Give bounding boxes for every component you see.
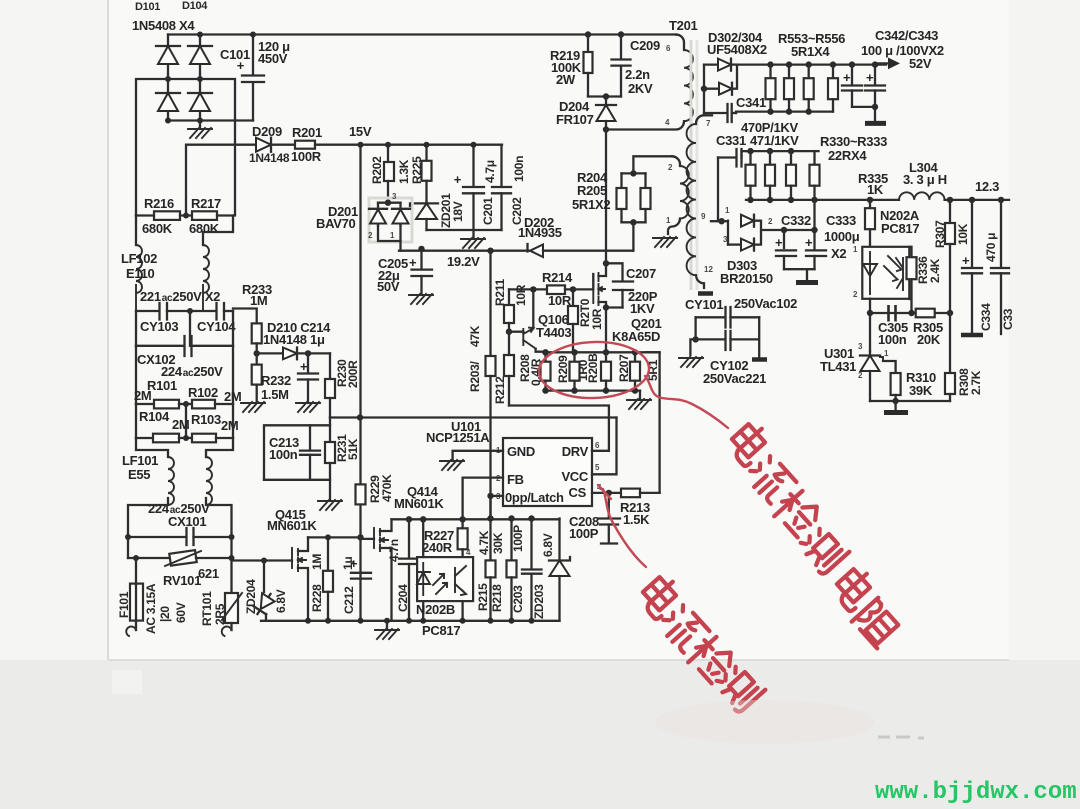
svg-text:www.bjjdwx.com: www.bjjdwx.com xyxy=(875,779,1077,806)
svg-text:K8A65D: K8A65D xyxy=(612,329,660,344)
svg-text:D104: D104 xyxy=(182,0,208,12)
resistor R553 xyxy=(766,65,776,112)
wire VCC loop xyxy=(592,418,617,475)
red text char4 ce xyxy=(797,523,850,576)
wire TL431 ref to R310 xyxy=(883,361,896,373)
svg-text:6: 6 xyxy=(595,441,600,450)
svg-text:GND: GND xyxy=(507,444,535,459)
resistor R211 xyxy=(504,289,514,331)
svg-text:3: 3 xyxy=(723,235,728,244)
svg-text:10R: 10R xyxy=(514,284,528,306)
node C333 top xyxy=(811,227,817,233)
svg-text:LF101: LF101 xyxy=(122,453,158,468)
svg-text:10K: 10K xyxy=(956,223,970,245)
svg-text:X2: X2 xyxy=(831,246,846,261)
svg-text:1: 1 xyxy=(390,231,395,240)
svg-text:1M: 1M xyxy=(250,293,267,308)
node snubber rail R555 xyxy=(806,108,812,114)
resistor R310 xyxy=(891,373,901,401)
red text2 char3 jian xyxy=(684,633,737,686)
node snubber rail R554 xyxy=(786,108,792,114)
svg-text:1KV: 1KV xyxy=(630,301,655,316)
svg-text:18V: 18V xyxy=(451,201,465,222)
svg-text:2R5: 2R5 xyxy=(213,603,227,625)
node C101 top xyxy=(250,32,256,38)
svg-text:4: 4 xyxy=(466,548,471,557)
wire D303 out rail xyxy=(784,230,815,248)
red text char6 zu xyxy=(852,598,903,649)
resistor R219 xyxy=(584,35,593,97)
diode D101 top-left xyxy=(156,46,180,64)
svg-text:19.2V: 19.2V xyxy=(447,254,480,269)
label Q414 MN601K xyxy=(394,484,444,511)
node R211 bottom xyxy=(506,329,512,335)
resistor R228 xyxy=(323,537,333,620)
svg-text:2M: 2M xyxy=(172,417,189,432)
svg-text:2: 2 xyxy=(768,217,773,226)
wire D201 out to 19.2V rail xyxy=(399,241,401,251)
capacitor C212 xyxy=(350,556,371,579)
wire Q414 gate from node xyxy=(361,538,375,540)
zener ZD204 xyxy=(251,561,277,621)
svg-text:+: + xyxy=(409,255,417,270)
ground aux winding xyxy=(653,237,677,247)
svg-text:1K: 1K xyxy=(867,182,884,197)
svg-text:C209: C209 xyxy=(630,38,660,53)
AC input hook left xyxy=(126,627,136,636)
snubber: node top rail R219 xyxy=(585,31,591,37)
node bridge bottom left xyxy=(165,118,171,124)
wire FB pin to R227 node xyxy=(463,478,503,520)
wire C342/C343 bottoms xyxy=(852,106,875,108)
capacitor C203 xyxy=(522,519,542,621)
ground CY101 (slash style) xyxy=(679,357,703,367)
red squiggle to label text1 xyxy=(645,376,728,428)
svg-text:R330~R333: R330~R333 xyxy=(820,134,887,149)
svg-text:470 μ: 470 μ xyxy=(984,233,998,262)
svg-text:R103: R103 xyxy=(191,412,221,427)
node 19.2V at R203 vertical xyxy=(487,248,493,254)
node out rail right cap xyxy=(998,197,1004,203)
wire vertical x360 from 15V down xyxy=(359,145,361,621)
node rail at x387 ground stub xyxy=(384,618,390,624)
transformer T201 aux winding xyxy=(668,156,689,234)
node rail R554 xyxy=(786,61,792,67)
svg-text:1μ: 1μ xyxy=(341,557,355,570)
node D204 bottom / T201 pin4 xyxy=(603,126,609,132)
node C204 top xyxy=(406,516,412,522)
wire TL431 bottom rail xyxy=(870,400,950,402)
wire down to RV101 rail xyxy=(128,537,232,558)
svg-text:R207: R207 xyxy=(617,354,631,382)
resistor R213 xyxy=(621,489,660,498)
winding tap node xyxy=(718,218,724,224)
node rail at x360 xyxy=(358,618,364,624)
node R204 pair bottom xyxy=(630,219,636,225)
svg-text:R214: R214 xyxy=(542,270,573,285)
label R233 1M xyxy=(242,282,272,308)
svg-text:+: + xyxy=(454,172,462,187)
svg-text:2.2n: 2.2n xyxy=(625,67,650,82)
wire bridge right column xyxy=(199,35,201,120)
node R215 top xyxy=(487,515,493,521)
node row R336 xyxy=(908,310,914,316)
wire D303 cathodes junction xyxy=(754,221,784,245)
resistor R217 xyxy=(192,211,233,220)
label R219 100K 2W xyxy=(550,48,582,87)
op-amp U101 NCP1251A box xyxy=(503,438,592,506)
node gate rail at R210 xyxy=(570,286,576,292)
wire 19.2V rail xyxy=(399,250,528,252)
svg-text:39K: 39K xyxy=(909,383,933,398)
wire AC2 jog to LF101 xyxy=(206,438,233,457)
wire mid column R101-R104 xyxy=(185,404,187,438)
label R305 20K xyxy=(913,320,943,347)
svg-text:22RX4: 22RX4 xyxy=(828,148,867,163)
svg-text:100P: 100P xyxy=(569,526,599,541)
wire 52V rail xyxy=(737,63,886,65)
svg-text:200R: 200R xyxy=(346,360,360,388)
svg-text:R203/: R203/ xyxy=(468,361,482,392)
faint gray dashes bottom xyxy=(878,737,924,738)
wire AC1 down to LF102 xyxy=(135,216,137,246)
resistor R208 xyxy=(541,352,551,390)
wire Q415 gate xyxy=(233,559,292,561)
svg-text:PC817: PC817 xyxy=(881,221,919,236)
svg-text:1R0: 1R0 xyxy=(576,359,590,381)
wire Opp pin to R203 vertical xyxy=(491,495,504,497)
svg-text:100n: 100n xyxy=(512,156,526,182)
wire aux top to R204/R205 xyxy=(633,156,672,173)
svg-text:|20: |20 xyxy=(158,606,172,622)
svg-text:450V: 450V xyxy=(258,51,288,66)
svg-text:R202: R202 xyxy=(370,156,384,184)
svg-text:2W: 2W xyxy=(556,72,576,87)
diode D201 right xyxy=(392,203,410,226)
ground ZD201 rail xyxy=(461,230,485,248)
node rail at x409 xyxy=(406,618,412,624)
svg-text:ZD203: ZD203 xyxy=(532,584,546,619)
svg-text:2: 2 xyxy=(368,231,373,240)
capacitor C331 (lower snubber series) xyxy=(718,149,750,221)
svg-text:4.7K: 4.7K xyxy=(477,530,491,555)
resistor R212 xyxy=(504,332,514,406)
red text char5 dian xyxy=(830,565,879,613)
svg-text:R205: R205 xyxy=(577,183,607,198)
svg-text:470K: 470K xyxy=(380,474,394,502)
shunt regulator U301 TL431 xyxy=(860,351,883,401)
svg-text:C341: C341 xyxy=(736,95,766,110)
node rail at x511 xyxy=(509,618,515,624)
red text char3 jian xyxy=(770,487,823,540)
svg-text:50V: 50V xyxy=(377,279,400,294)
svg-text:R232: R232 xyxy=(261,373,291,388)
node R204 pair top xyxy=(630,170,636,176)
node C332 top xyxy=(781,227,787,233)
node gate rail at Q106 emitter xyxy=(530,286,536,292)
ground C205 xyxy=(409,294,433,304)
svg-text:4.7μ: 4.7μ xyxy=(483,160,497,183)
node CX101 left xyxy=(125,534,131,540)
svg-text:T4403: T4403 xyxy=(536,325,571,340)
svg-text:R217: R217 xyxy=(191,196,221,211)
red tick at CS pin xyxy=(598,485,611,499)
label R217 680K xyxy=(189,196,221,236)
diode D303 lower xyxy=(728,239,754,251)
node source xyxy=(603,304,609,310)
diode bottom-left xyxy=(156,93,180,111)
resistor R330 xyxy=(746,151,756,199)
capacitor C214 xyxy=(298,353,318,401)
wire snubber bottom xyxy=(588,95,621,97)
resistor R218 xyxy=(507,519,517,621)
resistor R308 xyxy=(945,313,955,401)
inductor LF102 left coil xyxy=(136,245,142,311)
node drain xyxy=(603,260,609,266)
wire bridge mid rail xyxy=(168,78,200,80)
svg-text:12.3: 12.3 xyxy=(975,179,999,194)
svg-text:621: 621 xyxy=(198,566,219,581)
wire CS pin to R213 xyxy=(592,492,621,494)
node sense top R20B xyxy=(603,349,609,355)
red text char1 dian xyxy=(725,420,774,468)
node 15V at C201 xyxy=(471,142,477,148)
node out rail R332 xyxy=(788,197,794,203)
capacitor C207 xyxy=(613,282,633,308)
svg-text:+: + xyxy=(866,70,874,85)
resistor R216 xyxy=(136,211,192,220)
svg-text:2.7K: 2.7K xyxy=(969,370,983,395)
wire AC1 stub from bridge mid-left xyxy=(136,79,168,216)
node top rail R330 xyxy=(747,148,753,154)
diode D202 1N4935 xyxy=(528,244,634,257)
svg-text:PC817: PC817 xyxy=(422,623,460,638)
node 15V at x360 xyxy=(358,142,364,148)
ground bar CY102 right xyxy=(752,357,767,362)
capacitor C334 xyxy=(962,200,982,334)
svg-text:680K: 680K xyxy=(189,221,220,236)
MOSFET Q201 K8A65D xyxy=(593,263,606,307)
left margin xyxy=(0,0,108,660)
svg-text:47K: 47K xyxy=(468,325,482,347)
wire R233 tap xyxy=(233,309,257,324)
svg-text:+: + xyxy=(775,235,783,250)
ground bar C332/333 xyxy=(796,269,818,282)
svg-text:10R: 10R xyxy=(590,308,604,330)
node R101/R102 mid xyxy=(183,401,189,407)
resistor R230 xyxy=(325,353,335,417)
node top rail R332 xyxy=(788,148,794,154)
red pointer line from CS xyxy=(603,489,646,567)
wire gate drive rail xyxy=(509,288,547,290)
capacitor CY103 xyxy=(136,303,216,320)
label 224ac250V CX101 xyxy=(148,501,210,529)
wire AC1 down CY to CX xyxy=(135,311,137,346)
node CY mid xyxy=(187,308,193,314)
node 19.2V at C205 xyxy=(418,246,424,252)
capacitor C202 xyxy=(492,145,511,230)
node R228 top xyxy=(325,534,331,540)
wire Q415 drain to node xyxy=(308,536,361,538)
node C214 top xyxy=(305,350,311,356)
svg-text:471/1KV: 471/1KV xyxy=(750,133,799,148)
svg-text:100 μ /100VX2: 100 μ /100VX2 xyxy=(861,43,944,58)
dual diode D201 BAV70 package outline xyxy=(369,198,412,242)
svg-text:R102: R102 xyxy=(188,385,218,400)
capacitor C332 xyxy=(775,235,796,269)
node 15V at R202 xyxy=(385,142,391,148)
svg-text:MN601K: MN601K xyxy=(394,496,444,511)
node bridge mid right xyxy=(197,76,203,82)
svg-text:51K: 51K xyxy=(346,438,360,460)
capacitor CY101 xyxy=(696,307,760,328)
52V arrow xyxy=(874,58,900,70)
resistor R307 xyxy=(945,200,955,313)
wire D201 cathode rail xyxy=(378,202,401,204)
wire AC2 down CY to CX xyxy=(232,311,234,346)
wire R213 up to sense rail xyxy=(646,352,660,493)
wire drain to C207 xyxy=(606,263,623,281)
node VCC wire at x360 xyxy=(357,414,363,420)
svg-text:T201: T201 xyxy=(669,18,698,33)
wire winding pin7 up to rectifiers xyxy=(703,65,705,116)
node rail at x423 xyxy=(420,618,426,624)
svg-text:RT101: RT101 xyxy=(200,591,214,626)
faint white patch bottom-left xyxy=(112,670,142,694)
resistor R202 xyxy=(384,145,394,201)
wire D303 feed down xyxy=(813,200,815,232)
node out rail D303 feed xyxy=(811,197,817,203)
wire DRV loop xyxy=(509,406,609,451)
svg-text:6: 6 xyxy=(666,44,671,53)
svg-text:R215: R215 xyxy=(476,583,490,611)
svg-text:+: + xyxy=(962,253,970,268)
thermistor RT101 xyxy=(222,558,242,630)
fuse F101 xyxy=(130,558,143,630)
svg-text:1N4148 1μ: 1N4148 1μ xyxy=(263,332,325,347)
svg-text:R211: R211 xyxy=(493,279,507,306)
resistor R102 xyxy=(192,400,233,409)
node bottom rail R310 xyxy=(892,398,898,404)
wire bridge bottom rail to C101 bottom xyxy=(168,119,253,121)
wire AC1 jog to LF101 xyxy=(136,438,168,457)
resistor R229 xyxy=(356,484,366,504)
label R310 39K xyxy=(906,370,936,398)
svg-text:3. 3 μ H: 3. 3 μ H xyxy=(903,172,947,187)
svg-text:AC 3.15A: AC 3.15A xyxy=(144,583,158,634)
svg-text:60V: 60V xyxy=(174,602,188,623)
AC input hook right xyxy=(222,627,232,636)
svg-text:+: + xyxy=(843,70,851,85)
svg-text:C201: C201 xyxy=(481,197,495,225)
resistor R556 xyxy=(828,65,838,112)
svg-text:E110: E110 xyxy=(126,266,155,281)
svg-text:R104: R104 xyxy=(139,409,170,424)
resistor R225 xyxy=(422,145,432,202)
diode D204 FR107 xyxy=(596,97,616,130)
svg-text:BAV70: BAV70 xyxy=(316,216,356,231)
wire AC1 down CX to R101 xyxy=(135,346,137,404)
capacitor right edge cap xyxy=(991,200,1009,334)
red text char2 liu xyxy=(744,453,796,505)
transformer T201 secondary winding xyxy=(687,115,713,293)
resistor R207 xyxy=(630,352,640,390)
label R227 240R xyxy=(422,528,454,555)
svg-text:MN601K: MN601K xyxy=(267,518,317,533)
resistor R233 xyxy=(252,323,262,353)
svg-text:0pp/Latch: 0pp/Latch xyxy=(505,490,564,505)
resistor R215 xyxy=(486,496,496,621)
resistor R209 xyxy=(570,352,580,390)
svg-text:6.8V: 6.8V xyxy=(541,533,555,557)
svg-text:CY104: CY104 xyxy=(197,319,236,334)
svg-text:+: + xyxy=(805,235,813,250)
svg-text:20K: 20K xyxy=(917,332,941,347)
wire AC2 down to R103 xyxy=(232,404,234,438)
svg-text:N202B: N202B xyxy=(416,602,455,617)
svg-text:7: 7 xyxy=(706,119,711,128)
resistor R231 xyxy=(325,425,335,499)
ground bar C342/343 xyxy=(865,121,886,126)
inductor LF101 right coil xyxy=(206,457,212,505)
ground bar TL431 xyxy=(884,401,908,413)
node rail at x308 xyxy=(305,618,311,624)
svg-text:CS: CS xyxy=(569,485,587,500)
svg-text:5R1X2: 5R1X2 xyxy=(572,197,610,212)
diode D303 upper xyxy=(741,215,754,227)
capacitor C208 xyxy=(598,493,620,544)
wire AC2 down CX to R102 xyxy=(232,346,234,404)
node CY102 left xyxy=(692,336,698,342)
node R218 top xyxy=(508,515,514,521)
svg-text:6.8V: 6.8V xyxy=(274,589,288,613)
diode D201 left xyxy=(369,203,387,226)
node rail at x490 xyxy=(488,618,494,624)
svg-text:1000μ: 1000μ xyxy=(824,229,860,244)
label R103 2M xyxy=(191,412,238,433)
wire sense resistor top rail xyxy=(543,351,659,353)
resistor R335 xyxy=(865,200,875,247)
label 120u 450V xyxy=(258,39,290,66)
wire Q414 drain rail (FB net) xyxy=(392,518,560,520)
svg-text:2M: 2M xyxy=(224,389,241,404)
node Opp junction xyxy=(487,493,493,499)
right margin xyxy=(1009,0,1080,660)
diode D209 1N4148 xyxy=(256,138,295,152)
capacitor C343 xyxy=(865,65,885,124)
svg-text:1.5K: 1.5K xyxy=(623,512,650,527)
svg-text:C204: C204 xyxy=(396,584,410,612)
resistor R555 xyxy=(804,65,814,112)
svg-text:RV101: RV101 xyxy=(163,573,201,588)
wire C305/R305 row xyxy=(870,312,950,314)
transistor Q106 T4403 xyxy=(509,289,543,351)
wire pair bottom to D202 xyxy=(632,222,634,250)
wire C332/C333 bottom rail xyxy=(784,268,815,270)
node D201 pin3 xyxy=(385,200,391,206)
resistor R227 xyxy=(458,519,468,557)
node out rail R330 xyxy=(747,197,753,203)
svg-text:C207: C207 xyxy=(626,266,656,281)
svg-text:VCC: VCC xyxy=(561,469,588,484)
svg-text:R228: R228 xyxy=(310,584,324,612)
wire top rail 325V xyxy=(168,33,676,35)
svg-text:9: 9 xyxy=(701,212,706,221)
svg-text:250Vac102: 250Vac102 xyxy=(734,296,797,311)
node sense top R208 xyxy=(542,349,548,355)
diode D210 xyxy=(257,348,330,360)
svg-text:1: 1 xyxy=(725,206,730,215)
